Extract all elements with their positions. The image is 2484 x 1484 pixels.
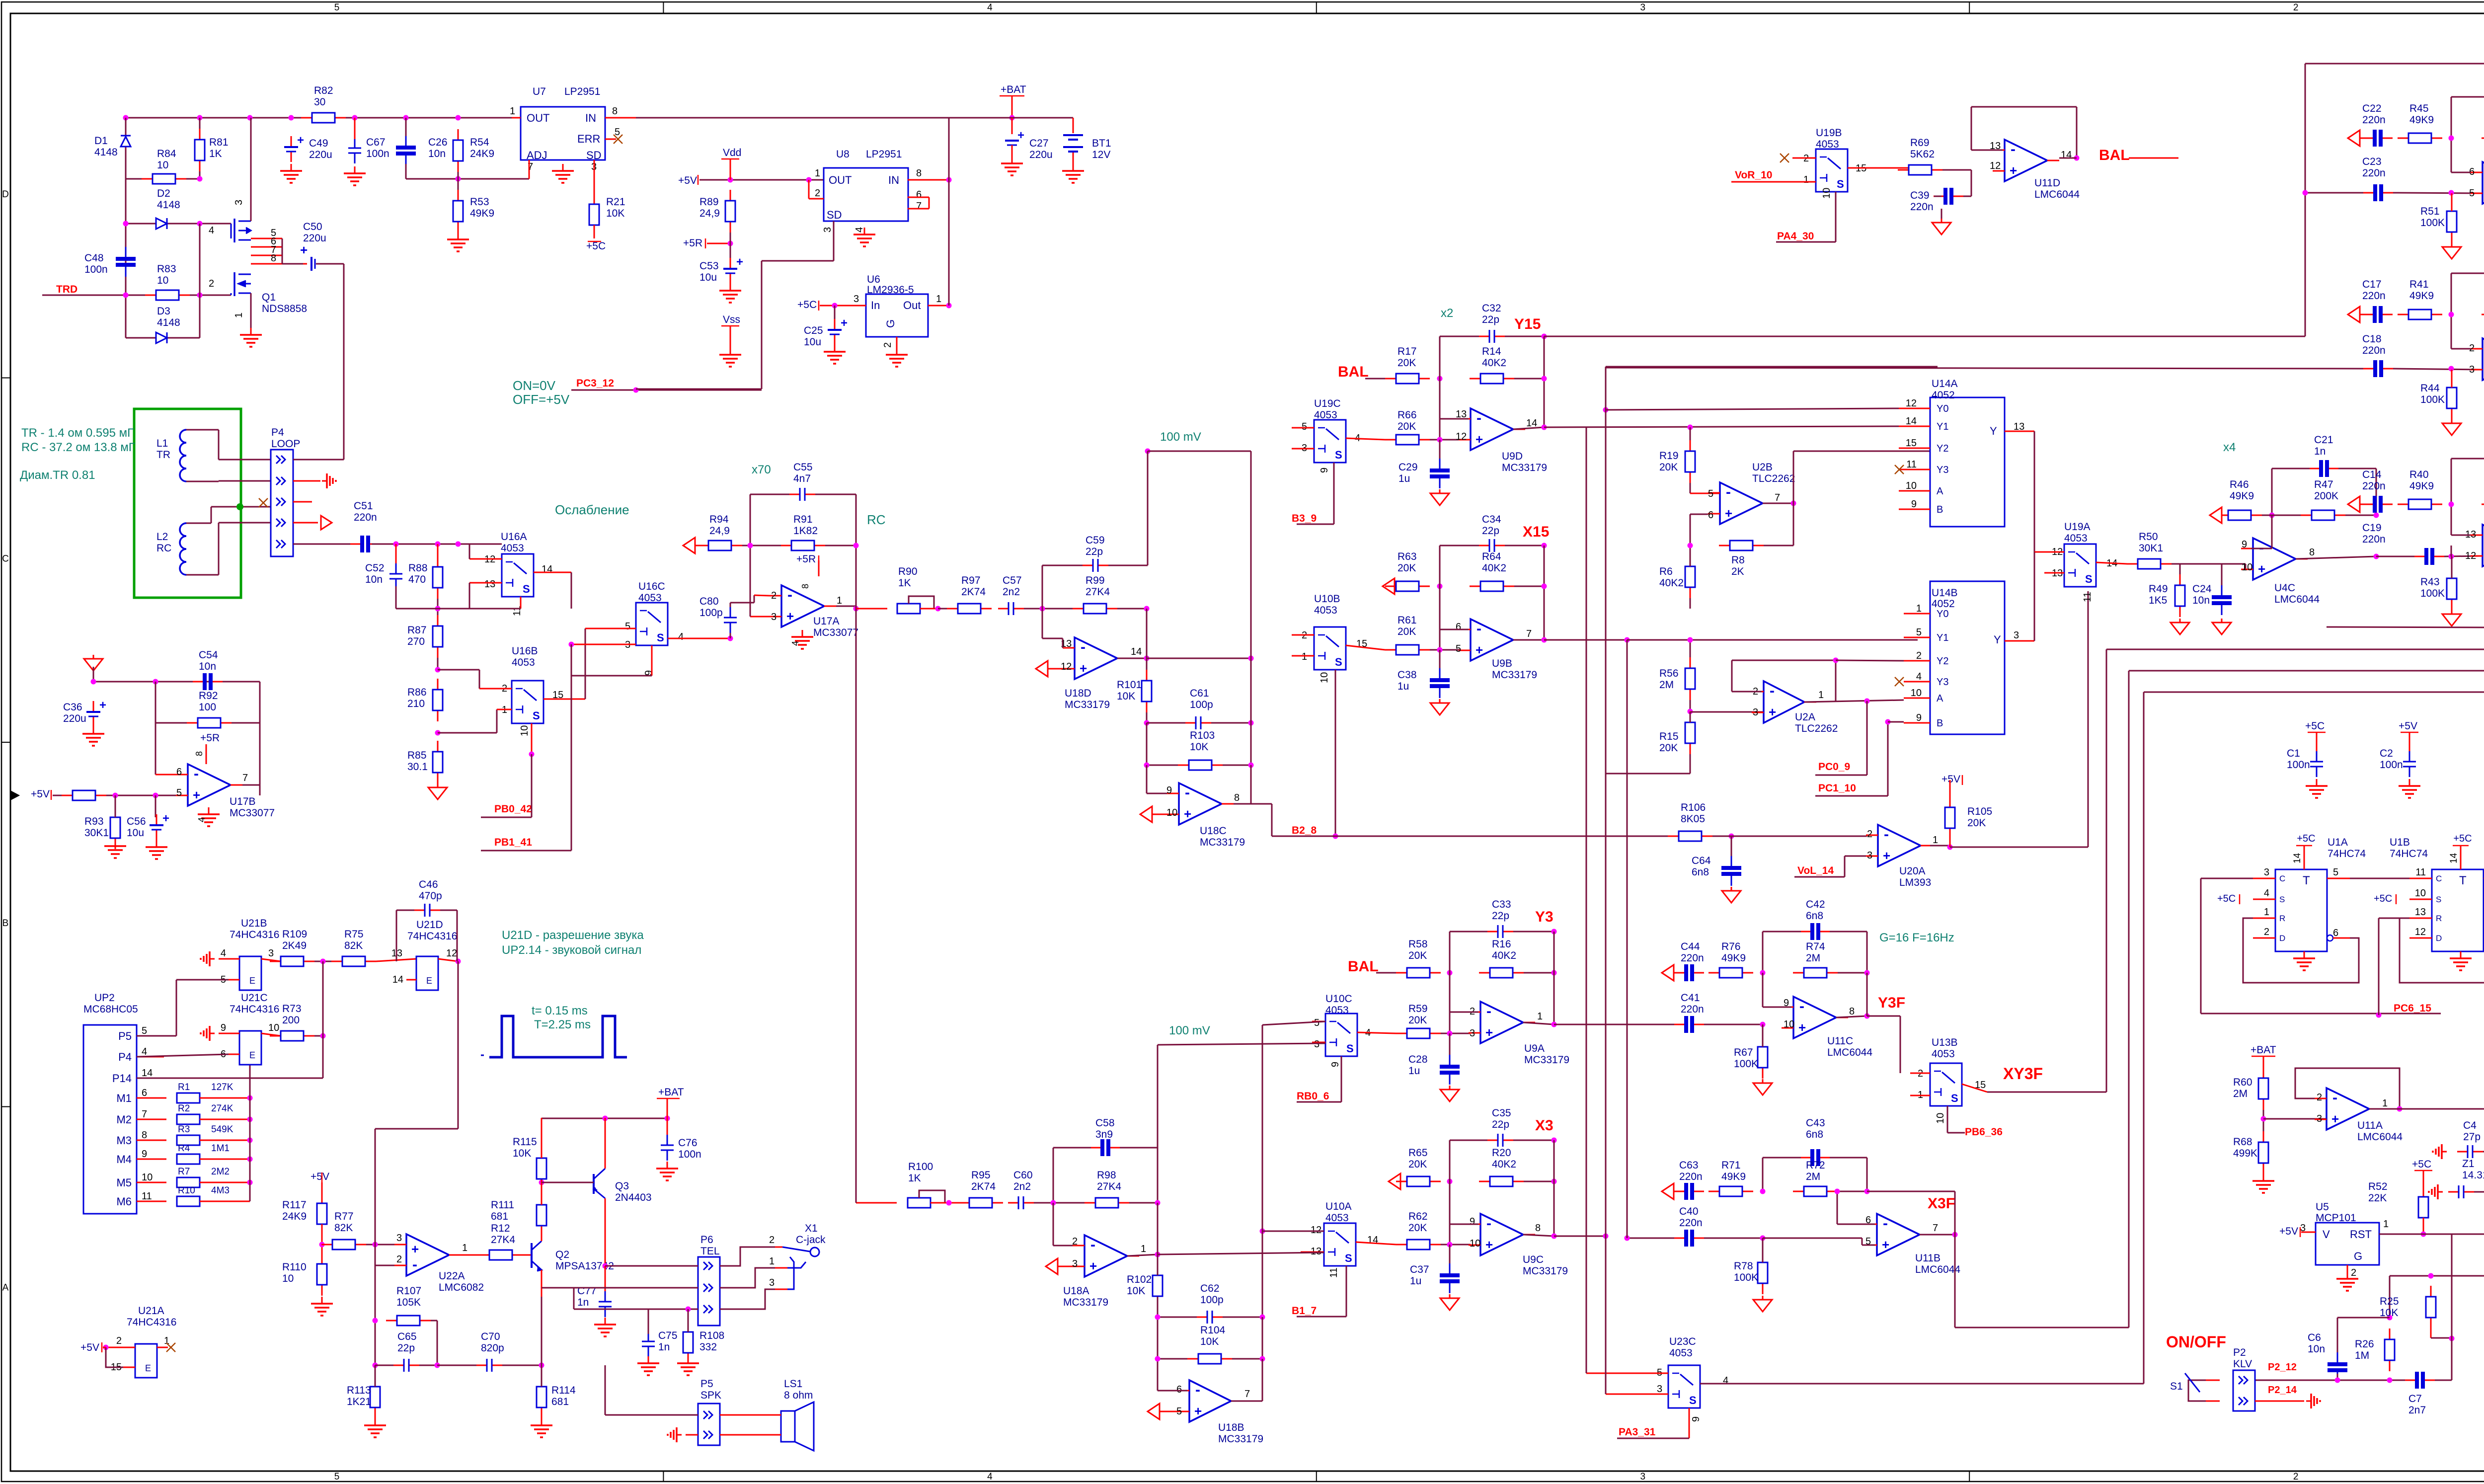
svg-text:+5V: +5V: [2279, 1226, 2298, 1237]
svg-text:S: S: [523, 583, 530, 595]
svg-text:-: -: [1884, 826, 1889, 843]
svg-text:100 mV: 100 mV: [1169, 1024, 1210, 1037]
svg-text:6: 6: [142, 1088, 147, 1098]
svg-text:30.1: 30.1: [407, 761, 428, 773]
svg-text:3: 3: [771, 612, 776, 623]
svg-text:R12: R12: [491, 1223, 510, 1234]
svg-text:C18: C18: [2362, 333, 2382, 345]
svg-text:C62: C62: [1200, 1283, 1220, 1294]
svg-text:2: 2: [2317, 1092, 2322, 1103]
svg-text:14: 14: [542, 564, 552, 575]
svg-text:C7: C7: [2408, 1393, 2422, 1405]
svg-text:3: 3: [2469, 364, 2475, 375]
svg-text:20K: 20K: [1397, 562, 1416, 574]
svg-text:8: 8: [142, 1130, 147, 1141]
svg-text:22p: 22p: [397, 1342, 415, 1354]
svg-text:4M3: 4M3: [211, 1185, 230, 1196]
svg-text:24K9: 24K9: [282, 1211, 307, 1222]
svg-text:1K21: 1K21: [347, 1396, 371, 1407]
svg-text:+5V: +5V: [310, 1171, 329, 1182]
svg-text:8: 8: [916, 168, 922, 179]
svg-text:200K: 200K: [2314, 490, 2338, 502]
svg-text:PB1_41: PB1_41: [494, 837, 532, 848]
svg-text:9: 9: [142, 1149, 147, 1160]
svg-text:74HC74: 74HC74: [2390, 848, 2428, 859]
svg-text:PA4_30: PA4_30: [1777, 231, 1814, 242]
svg-text:OUT: OUT: [527, 112, 549, 124]
svg-text:+5V: +5V: [1941, 774, 1960, 785]
svg-text:9: 9: [1330, 1062, 1341, 1067]
svg-text:G=16 F=16Hz: G=16 F=16Hz: [1879, 931, 1954, 944]
svg-text:R41: R41: [2409, 279, 2429, 290]
svg-text:12: 12: [1906, 398, 1917, 409]
svg-text:R88: R88: [408, 562, 428, 574]
svg-text:TR - 1.4 ом 0.595 мГ: TR - 1.4 ом 0.595 мГ: [21, 426, 134, 440]
svg-text:B: B: [1937, 504, 1943, 515]
svg-text:Y3: Y3: [1937, 465, 1948, 475]
svg-text:270: 270: [407, 636, 425, 647]
svg-text:5: 5: [334, 1472, 340, 1482]
svg-text:3: 3: [769, 1277, 775, 1288]
svg-text:PC3_12: PC3_12: [576, 378, 614, 389]
svg-text:+: +: [1475, 432, 1483, 447]
svg-text:3: 3: [1314, 1039, 1320, 1050]
svg-text:V: V: [2323, 1228, 2330, 1241]
svg-text:+: +: [736, 255, 743, 269]
svg-text:220n: 220n: [2362, 167, 2386, 179]
svg-text:MC33179: MC33179: [1502, 462, 1547, 473]
svg-text:30K1: 30K1: [2139, 543, 2163, 554]
svg-text:U16A: U16A: [501, 531, 527, 543]
svg-text:R77: R77: [334, 1211, 354, 1222]
svg-text:+: +: [411, 1242, 419, 1256]
svg-text:11: 11: [1328, 1267, 1339, 1278]
svg-text:10: 10: [1470, 1238, 1480, 1249]
svg-text:8K05: 8K05: [1681, 813, 1705, 825]
svg-text:100p: 100p: [1190, 699, 1213, 710]
svg-text:P2_12: P2_12: [2268, 1362, 2297, 1373]
svg-text:3: 3: [1867, 850, 1872, 861]
svg-text:R3: R3: [178, 1124, 190, 1135]
svg-text:105K: 105K: [396, 1297, 421, 1308]
svg-text:IN: IN: [585, 112, 596, 124]
svg-text:40K2: 40K2: [1659, 577, 1684, 589]
svg-text:LMC6044: LMC6044: [1827, 1047, 1872, 1058]
svg-text:10n: 10n: [2308, 1343, 2325, 1355]
svg-text:C6: C6: [2308, 1332, 2321, 1343]
svg-text:NDS8858: NDS8858: [262, 303, 307, 314]
svg-text:2M: 2M: [1806, 952, 1820, 964]
svg-text:C36: C36: [63, 702, 82, 713]
svg-text:R111: R111: [491, 1199, 514, 1211]
svg-text:+: +: [1798, 1020, 1806, 1035]
svg-text:x70: x70: [752, 463, 771, 476]
svg-text:22p: 22p: [1482, 525, 1499, 537]
svg-text:U19A: U19A: [2064, 521, 2091, 533]
svg-text:LOOP: LOOP: [271, 438, 300, 450]
svg-text:KLV: KLV: [2233, 1358, 2252, 1370]
svg-text:R52: R52: [2368, 1181, 2388, 1192]
svg-text:9: 9: [1166, 785, 1172, 796]
svg-text:LMC6044: LMC6044: [2357, 1131, 2403, 1143]
svg-text:C46: C46: [419, 879, 438, 890]
svg-text:4: 4: [1916, 671, 1922, 682]
svg-text:LS1: LS1: [784, 1378, 802, 1390]
svg-text:100n: 100n: [2287, 759, 2310, 771]
svg-text:4: 4: [854, 227, 865, 233]
svg-text:+5V: +5V: [31, 788, 50, 800]
svg-text:U21D - разрешение звука: U21D - разрешение звука: [502, 929, 644, 942]
svg-text:681: 681: [491, 1211, 508, 1222]
svg-text:22p: 22p: [1492, 1119, 1509, 1130]
svg-text:Q3: Q3: [615, 1180, 629, 1192]
svg-text:C: C: [2, 554, 9, 564]
svg-text:S: S: [2085, 573, 2093, 585]
svg-text:20K: 20K: [1408, 1015, 1427, 1026]
svg-text:VoL_14: VoL_14: [1797, 865, 1834, 876]
svg-text:10K: 10K: [606, 208, 624, 219]
svg-text:8: 8: [612, 106, 618, 117]
svg-text:R108: R108: [699, 1330, 724, 1341]
svg-text:C70: C70: [481, 1331, 500, 1342]
svg-text:10: 10: [157, 159, 168, 171]
svg-text:2: 2: [2293, 2, 2299, 13]
svg-text:R73: R73: [282, 1003, 302, 1015]
svg-text:3: 3: [2317, 1113, 2322, 1124]
svg-text:R109: R109: [282, 929, 307, 940]
svg-text:1K82: 1K82: [793, 525, 818, 537]
svg-text:C2: C2: [2380, 748, 2393, 759]
svg-text:R51: R51: [2420, 206, 2440, 217]
svg-text:3n9: 3n9: [1095, 1129, 1113, 1140]
svg-text:7: 7: [1526, 628, 1532, 639]
svg-text:R104: R104: [1200, 1325, 1226, 1336]
svg-text:2: 2: [116, 1335, 122, 1346]
svg-text:100K: 100K: [1734, 1272, 1758, 1283]
svg-text:+: +: [2331, 1111, 2339, 1126]
svg-text:BAL: BAL: [2099, 147, 2130, 163]
svg-text:10n: 10n: [365, 574, 383, 585]
svg-text:4053: 4053: [512, 657, 535, 668]
svg-text:220u: 220u: [309, 149, 332, 160]
svg-text:U8: U8: [836, 149, 850, 160]
svg-text:1: 1: [462, 1243, 467, 1253]
svg-text:220n: 220n: [354, 512, 377, 523]
svg-text:R53: R53: [470, 196, 489, 208]
svg-text:13: 13: [2415, 907, 2426, 918]
svg-text:SD: SD: [827, 209, 842, 221]
svg-text:Y1: Y1: [1937, 421, 1948, 432]
svg-text:C42: C42: [1806, 899, 1825, 910]
svg-text:8: 8: [2309, 547, 2315, 558]
svg-text:7: 7: [916, 201, 922, 212]
svg-text:LMC6044: LMC6044: [2034, 189, 2080, 200]
svg-text:LP2951: LP2951: [564, 86, 600, 97]
svg-text:22p: 22p: [1482, 314, 1499, 325]
svg-text:In: In: [871, 299, 880, 312]
svg-text:2: 2: [2293, 1472, 2299, 1482]
svg-text:Y3: Y3: [1535, 909, 1553, 925]
svg-text:R47: R47: [2314, 479, 2333, 490]
svg-text:U10A: U10A: [1325, 1201, 1352, 1212]
svg-text:R100: R100: [908, 1161, 933, 1172]
svg-text:R76: R76: [1721, 941, 1741, 952]
svg-text:U19B: U19B: [1816, 127, 1842, 139]
svg-text:T: T: [2303, 874, 2310, 887]
svg-text:8: 8: [271, 253, 276, 264]
svg-text:20K: 20K: [1659, 462, 1678, 473]
svg-text:681: 681: [551, 1396, 569, 1407]
svg-text:R86: R86: [407, 687, 427, 698]
svg-text:MC33179: MC33179: [1524, 1054, 1569, 1066]
svg-text:U9C: U9C: [1523, 1254, 1544, 1265]
svg-text:Y1: Y1: [1937, 632, 1948, 643]
svg-text:R50: R50: [2139, 531, 2158, 543]
svg-text:MC33179: MC33179: [1218, 1433, 1263, 1445]
svg-text:Q2: Q2: [555, 1249, 569, 1260]
svg-text:4053: 4053: [638, 592, 662, 604]
svg-text:20K: 20K: [1397, 421, 1416, 432]
svg-text:1: 1: [233, 312, 244, 318]
svg-text:5: 5: [334, 2, 340, 13]
svg-text:2K49: 2K49: [282, 940, 307, 951]
svg-text:5: 5: [1708, 488, 1713, 499]
svg-text:1u: 1u: [1397, 681, 1409, 692]
svg-text:MC33077: MC33077: [813, 627, 858, 638]
svg-text:3: 3: [1072, 1258, 1078, 1269]
svg-text:1: 1: [1302, 651, 1307, 662]
svg-text:A: A: [1937, 486, 1943, 497]
svg-text:U11C: U11C: [1827, 1035, 1853, 1047]
svg-text:10n: 10n: [2192, 595, 2210, 606]
svg-text:R65: R65: [1408, 1147, 1428, 1159]
svg-text:R91: R91: [793, 514, 813, 525]
svg-text:OUT: OUT: [829, 174, 852, 186]
svg-text:U1B: U1B: [2390, 837, 2410, 848]
svg-text:4053: 4053: [1932, 1048, 1955, 1060]
svg-text:C57: C57: [1003, 575, 1022, 586]
svg-text:L2: L2: [156, 531, 168, 543]
svg-text:Vss: Vss: [723, 314, 740, 325]
svg-text:-: -: [1883, 1215, 1888, 1232]
svg-text:1M: 1M: [2355, 1350, 2369, 1361]
svg-text:220n: 220n: [1679, 1171, 1703, 1182]
svg-text:C1: C1: [2287, 748, 2300, 759]
svg-text:2M: 2M: [1806, 1171, 1820, 1182]
svg-text:5: 5: [2333, 867, 2338, 878]
svg-text:+: +: [1485, 1025, 1493, 1040]
svg-text:R103: R103: [1190, 730, 1215, 741]
svg-text:S: S: [2279, 895, 2285, 904]
svg-text:+: +: [841, 316, 848, 330]
svg-text:1: 1: [1916, 603, 1922, 614]
svg-text:2: 2: [2264, 927, 2269, 937]
svg-text:C61: C61: [1190, 688, 1209, 699]
svg-text:R6: R6: [1659, 566, 1673, 577]
svg-text:C52: C52: [365, 562, 385, 574]
svg-text:R4: R4: [178, 1143, 190, 1154]
svg-text:R63: R63: [1397, 551, 1417, 562]
svg-text:-: -: [1476, 410, 1481, 426]
svg-text:+5C: +5C: [586, 240, 606, 252]
svg-text:X1: X1: [805, 1223, 818, 1234]
svg-text:100 mV: 100 mV: [1160, 430, 1201, 444]
svg-text:C56: C56: [127, 816, 146, 827]
svg-text:R114: R114: [551, 1385, 576, 1396]
svg-text:R82: R82: [314, 85, 333, 96]
svg-text:+: +: [1080, 661, 1087, 676]
svg-text:C64: C64: [1692, 855, 1711, 866]
svg-text:10: 10: [1166, 807, 1177, 818]
svg-text:220n: 220n: [1681, 952, 1704, 964]
svg-text:C26: C26: [428, 137, 448, 148]
svg-text:10K: 10K: [513, 1148, 531, 1159]
svg-text:2K74: 2K74: [961, 586, 986, 598]
svg-text:220n: 220n: [1681, 1004, 1704, 1015]
svg-text:E: E: [249, 1050, 255, 1060]
svg-text:C4: C4: [2463, 1120, 2477, 1131]
svg-text:549K: 549K: [211, 1124, 233, 1135]
svg-text:22K: 22K: [2368, 1192, 2387, 1204]
svg-text:1u: 1u: [1408, 1065, 1420, 1077]
svg-text:11: 11: [1906, 459, 1917, 470]
svg-text:U13B: U13B: [1932, 1037, 1958, 1048]
svg-text:U18A: U18A: [1063, 1285, 1089, 1297]
svg-text:C21: C21: [2314, 434, 2333, 446]
svg-text:1: 1: [510, 106, 515, 117]
svg-text:C48: C48: [84, 252, 104, 264]
svg-text:1: 1: [1933, 835, 1938, 846]
svg-text:+BAT: +BAT: [2251, 1044, 2276, 1056]
svg-text:C39: C39: [1910, 190, 1930, 201]
svg-text:27K4: 27K4: [491, 1234, 515, 1246]
svg-text:82K: 82K: [344, 940, 363, 951]
svg-text:9: 9: [1911, 499, 1917, 510]
svg-text:C80: C80: [699, 596, 719, 607]
svg-text:P4: P4: [271, 427, 284, 438]
svg-text:+: +: [162, 812, 169, 825]
svg-text:P6: P6: [700, 1234, 713, 1246]
svg-text:U9B: U9B: [1492, 658, 1512, 669]
svg-text:3: 3: [396, 1233, 402, 1244]
svg-text:4053: 4053: [1325, 1212, 1349, 1224]
svg-text:74HC4316: 74HC4316: [407, 931, 457, 942]
svg-text:100K: 100K: [1734, 1058, 1758, 1070]
svg-text:C-jack: C-jack: [796, 1234, 826, 1246]
svg-text:14: 14: [1131, 646, 1142, 657]
svg-text:M3: M3: [116, 1134, 132, 1147]
svg-text:C22: C22: [2362, 103, 2382, 114]
svg-text:7: 7: [1244, 1389, 1250, 1400]
svg-text:U10C: U10C: [1325, 993, 1352, 1005]
svg-text:4053: 4053: [2064, 533, 2088, 544]
svg-text:TLC2262: TLC2262: [1795, 723, 1838, 734]
svg-text:R95: R95: [971, 1170, 991, 1181]
svg-text:R43: R43: [2420, 576, 2440, 588]
svg-text:PC0_9: PC0_9: [1818, 761, 1850, 773]
svg-text:S: S: [1346, 1042, 1354, 1055]
svg-text:220u: 220u: [1029, 149, 1053, 160]
svg-text:UP2.14 - звуковой сигнал: UP2.14 - звуковой сигнал: [502, 943, 641, 957]
svg-text:C55: C55: [793, 462, 813, 473]
svg-text:X15: X15: [1523, 524, 1549, 540]
svg-text:U14A: U14A: [1932, 378, 1958, 390]
svg-text:R87: R87: [407, 625, 427, 636]
svg-text:8 ohm: 8 ohm: [784, 1390, 813, 1401]
svg-text:C49: C49: [309, 138, 328, 149]
svg-text:Y: Y: [1990, 425, 1997, 437]
svg-text:+5R: +5R: [796, 553, 816, 565]
svg-text:Out: Out: [903, 299, 921, 312]
svg-text:U18B: U18B: [1218, 1422, 1244, 1433]
svg-text:1: 1: [1537, 1011, 1543, 1022]
svg-text:1: 1: [936, 294, 941, 305]
svg-text:100: 100: [199, 702, 216, 713]
svg-text:1n: 1n: [2314, 446, 2326, 457]
svg-text:R75: R75: [344, 929, 364, 940]
svg-text:R64: R64: [1482, 551, 1501, 562]
svg-text:R1: R1: [178, 1082, 190, 1093]
svg-text:T: T: [2459, 874, 2467, 887]
svg-text:10: 10: [2415, 888, 2426, 899]
svg-text:R62: R62: [1408, 1211, 1428, 1222]
svg-text:3: 3: [1753, 707, 1758, 718]
svg-text:C65: C65: [397, 1331, 417, 1342]
svg-text:ADJ: ADJ: [527, 149, 547, 161]
svg-text:LMC6044: LMC6044: [1915, 1264, 1960, 1275]
svg-text:D3: D3: [157, 306, 170, 317]
svg-text:4053: 4053: [1669, 1347, 1693, 1359]
svg-text:6n8: 6n8: [1806, 1129, 1823, 1140]
svg-text:220n: 220n: [2362, 114, 2386, 126]
svg-text:U6: U6: [867, 274, 880, 285]
svg-text:MC33179: MC33179: [1063, 1297, 1108, 1308]
svg-text:D: D: [2436, 934, 2442, 943]
svg-text:P5: P5: [118, 1030, 132, 1042]
svg-text:8: 8: [1535, 1223, 1541, 1234]
svg-text:U14B: U14B: [1932, 587, 1958, 599]
svg-text:OFF=+5V: OFF=+5V: [513, 392, 570, 407]
svg-text:C75: C75: [658, 1330, 678, 1341]
svg-text:10u: 10u: [127, 827, 144, 839]
svg-text:R40: R40: [2409, 469, 2429, 480]
svg-text:U22A: U22A: [439, 1270, 465, 1282]
svg-text:S: S: [1335, 656, 1342, 668]
svg-text:14: 14: [392, 974, 403, 985]
svg-text:Y: Y: [1994, 633, 2001, 646]
svg-text:20K: 20K: [1408, 1222, 1427, 1234]
svg-text:S: S: [1837, 178, 1844, 190]
svg-text:+: +: [786, 609, 794, 624]
svg-text:100K: 100K: [2420, 394, 2445, 405]
svg-text:49K9: 49K9: [1721, 1171, 1746, 1182]
svg-text:IN: IN: [888, 174, 899, 186]
svg-text:6: 6: [176, 767, 182, 778]
svg-text:+: +: [1017, 129, 1024, 142]
svg-text:5K62: 5K62: [1910, 149, 1935, 160]
svg-text:B: B: [2, 918, 9, 929]
svg-text:MC33077: MC33077: [230, 807, 275, 819]
svg-text:C54: C54: [199, 649, 218, 661]
svg-text:1K: 1K: [908, 1172, 921, 1184]
svg-text:6n8: 6n8: [1692, 866, 1709, 878]
svg-text:PA3_31: PA3_31: [1619, 1426, 1656, 1438]
svg-text:9: 9: [1319, 468, 1330, 473]
svg-text:30K1: 30K1: [84, 827, 109, 839]
svg-text:6: 6: [916, 189, 922, 200]
svg-text:+5C: +5C: [797, 299, 817, 311]
svg-text:U2A: U2A: [1795, 711, 1815, 723]
